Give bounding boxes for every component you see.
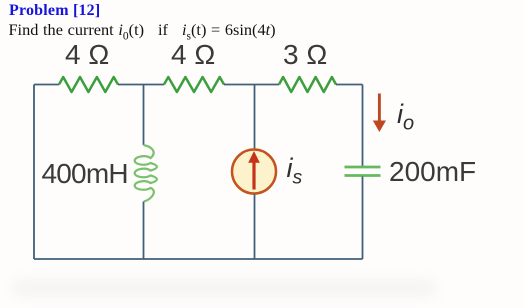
current source IS circle [232,150,276,194]
resistor R2 4ohm [164,77,224,92]
wire left branch [33,85,35,260]
capacitor C1 200mF plates [345,167,381,176]
resistor R3 3ohm [279,77,336,92]
wire top segment node A to R1 [34,84,59,86]
label 3 ohm R3 [283,39,327,71]
label 4 ohm R2 [171,39,215,71]
resistor R1 4ohm [59,77,118,92]
title: Problem [12] [9,2,100,20]
wire inductor to bottom [143,202,145,260]
inductor L1 400mH coil [135,145,157,202]
label 200mF [389,156,476,188]
current source arrow [252,161,255,190]
label is [287,153,303,189]
wire capacitor to bottom [362,177,364,260]
wire current source to bottom [254,194,256,259]
current io arrow [378,94,381,123]
scan shadow band bottom [12,281,436,295]
problem statement line [9,20,276,42]
wire bottom [34,258,363,260]
wire R3 to top-right corner [336,84,363,86]
label 4 ohm R1 [65,39,109,71]
wire node C down to current source [254,85,256,151]
label 400mH [42,158,128,190]
label io [397,99,414,135]
wire R2 to node C [224,84,279,86]
wire top-right corner down to capacitor [362,85,364,167]
wire node B down to inductor [143,85,145,146]
wire R1 to node B [118,84,164,86]
